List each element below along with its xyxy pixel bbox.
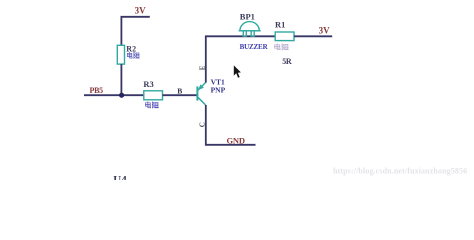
svg-text:PNP: PNP bbox=[211, 86, 226, 95]
resistor R2 bbox=[117, 45, 124, 64]
svg-text:R1: R1 bbox=[275, 19, 285, 29]
svg-text:BP1: BP1 bbox=[240, 11, 255, 21]
junction node bbox=[119, 93, 124, 98]
wire: collector down and across to GND bbox=[206, 105, 256, 145]
buzzer BP1 symbol bbox=[239, 22, 261, 37]
transistor VT1 (PNP) body bbox=[197, 83, 205, 105]
wire: PB5 horizontal to R3 bbox=[84, 94, 144, 96]
value label 电阻 (R3) bbox=[145, 102, 158, 108]
svg-text:U4: U4 bbox=[113, 174, 127, 180]
wire: R1 to 3V right terminal bbox=[294, 35, 332, 37]
wire: 3V rail top-left down to R2 bbox=[121, 17, 149, 46]
svg-text:GND: GND bbox=[227, 136, 245, 146]
wire: emitter up and across to R1 bbox=[206, 36, 275, 82]
wire: R2 bottom to junction bbox=[120, 64, 122, 95]
mouse cursor bbox=[234, 65, 241, 77]
svg-text:5R: 5R bbox=[282, 57, 292, 66]
svg-text:3V: 3V bbox=[135, 5, 147, 15]
svg-text:R2: R2 bbox=[126, 45, 136, 54]
value label 电阻 (R1, greyed) bbox=[275, 44, 289, 50]
value label 电阻 (R2) bbox=[127, 52, 139, 58]
svg-text:B: B bbox=[177, 87, 182, 96]
svg-text:R3: R3 bbox=[143, 79, 153, 89]
svg-text:PB5: PB5 bbox=[90, 86, 104, 95]
wire: R3 to transistor base bbox=[163, 94, 197, 96]
resistor R3 bbox=[144, 91, 163, 100]
svg-text:https://blog.csdn.net/fuxianzh: https://blog.csdn.net/fuxianzhong5856 bbox=[333, 167, 467, 176]
svg-text:3V: 3V bbox=[319, 26, 331, 36]
svg-text:BUZZER: BUZZER bbox=[240, 43, 269, 51]
resistor R1 bbox=[275, 32, 294, 41]
